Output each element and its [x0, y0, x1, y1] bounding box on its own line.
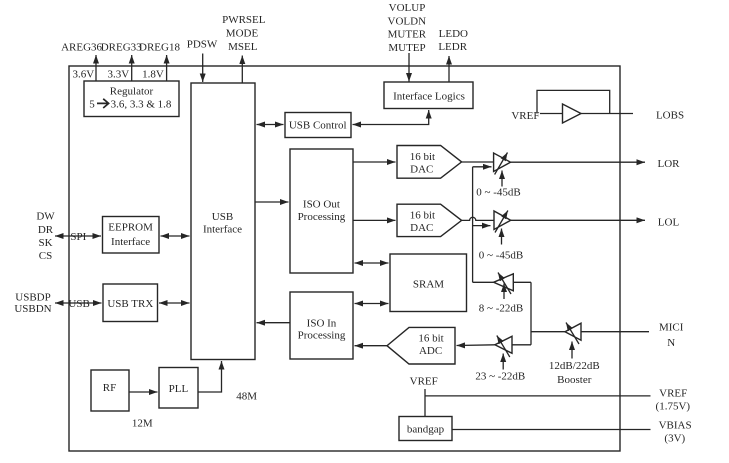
pin label VBIAS (3V) — [659, 419, 692, 444]
usb control block — [285, 113, 351, 138]
svg-text:USB Control: USB Control — [289, 120, 347, 132]
mic bus vertical — [530, 282, 532, 345]
vga amp 8dB (sidetone, left pointing) — [494, 273, 514, 300]
svg-text:48M: 48M — [236, 391, 257, 403]
svg-text:(1.75V): (1.75V) — [656, 401, 691, 413]
pin label VREF (1.75V) — [656, 388, 691, 413]
svg-text:5: 5 — [89, 99, 95, 111]
svg-text:16 bit: 16 bit — [410, 151, 435, 163]
svg-text:PLL: PLL — [169, 383, 189, 395]
usb trx block — [103, 284, 158, 322]
interface logics block — [384, 82, 473, 109]
pin labels LEDO LEDR — [438, 28, 468, 53]
svg-text:USB: USB — [212, 211, 233, 223]
chip outer boundary — [69, 66, 620, 451]
wire amp2 to LOL — [511, 219, 645, 221]
svg-text:MUTER: MUTER — [388, 29, 427, 41]
pin label MICI N — [659, 321, 684, 349]
svg-text:Interface Logics: Interface Logics — [393, 90, 465, 102]
svg-text:DAC: DAC — [410, 163, 433, 175]
svg-text:VBIAS: VBIAS — [659, 419, 692, 431]
svg-text:0 ~ -45dB: 0 ~ -45dB — [479, 250, 523, 262]
wire bus stub to amp1 — [473, 166, 492, 168]
wire buffer out LOBS — [581, 113, 633, 115]
svg-text:EEPROM: EEPROM — [108, 221, 153, 233]
wire USB double arrow — [55, 302, 102, 304]
vga amp1 (line out right) — [494, 153, 511, 187]
eeprom interface block — [103, 217, 160, 254]
svg-text:SRAM: SRAM — [413, 278, 444, 290]
svg-text:3.6V: 3.6V — [73, 69, 95, 81]
svg-text:3.6, 3.3 & 1.8: 3.6, 3.3 & 1.8 — [111, 99, 172, 111]
wire iso in to usb interface — [257, 322, 291, 324]
wire iso out to dac1 — [353, 161, 396, 163]
svg-text:Regulator: Regulator — [110, 86, 154, 98]
wire iso in to sram — [355, 303, 389, 305]
iso in processing block — [290, 292, 353, 359]
svg-text:CS: CS — [39, 250, 52, 262]
svg-text:DREG18: DREG18 — [139, 42, 180, 54]
wire amp8 out to bus — [473, 281, 494, 283]
svg-text:AREG36: AREG36 — [61, 42, 102, 54]
wire MSEL arrow — [241, 56, 243, 84]
svg-text:0 ~ -45dB: 0 ~ -45dB — [476, 187, 520, 199]
iso out processing block — [290, 149, 353, 273]
svg-text:Processing: Processing — [298, 211, 346, 223]
wire dac1 to amp1 — [462, 161, 494, 163]
pin labels PWRSEL MODE MSEL — [222, 14, 266, 53]
svg-text:12M: 12M — [132, 418, 153, 430]
wire AREG36 arrow — [95, 55, 97, 81]
svg-text:3.3V: 3.3V — [107, 69, 129, 81]
wire usb interface to iso out — [255, 201, 289, 203]
svg-text:bandgap: bandgap — [407, 424, 445, 436]
svg-text:LOR: LOR — [658, 158, 681, 170]
svg-text:DW: DW — [36, 211, 55, 223]
wire iso out to dac2 — [353, 219, 396, 221]
svg-text:VREF: VREF — [659, 388, 687, 400]
wire vref vertical to bandgap — [424, 389, 426, 417]
adc block (16 bit ADC) — [387, 327, 455, 364]
sidetone bus vertical — [472, 167, 474, 282]
svg-text:USB: USB — [68, 298, 89, 310]
svg-text:DREG33: DREG33 — [101, 42, 142, 54]
svg-text:Booster: Booster — [557, 374, 592, 386]
dac1 block (16 bit DAC) — [397, 146, 462, 179]
wire vref to buffer — [540, 113, 563, 115]
pin labels DW DR SK CS — [36, 211, 55, 263]
wire usbtrx to usb interface — [159, 302, 190, 304]
feedback loop — [537, 90, 610, 113]
svg-text:8 ~ -22dB: 8 ~ -22dB — [479, 303, 523, 315]
booster amp (mic input, left pointing) — [565, 323, 581, 359]
svg-text:12dB/22dB: 12dB/22dB — [549, 360, 600, 372]
svg-text:VREF: VREF — [511, 110, 539, 122]
vga amp 23dB (adc input, left pointing) — [495, 336, 512, 370]
pll block — [159, 368, 198, 409]
svg-text:USBDP: USBDP — [15, 291, 50, 303]
svg-text:Processing: Processing — [298, 330, 346, 342]
pin labels USBDP USBDN — [14, 291, 51, 315]
regulator line2: 5 -> 3.6, 3.3 & 1.8 — [89, 99, 172, 111]
wire vref output — [425, 395, 651, 397]
svg-text:23 ~ -22dB: 23 ~ -22dB — [475, 371, 525, 383]
wire eeprom to usb interface — [161, 235, 190, 237]
svg-text:MSEL: MSEL — [228, 41, 258, 53]
svg-text:1.8V: 1.8V — [142, 69, 164, 81]
pin labels VOLUP VOLDN MUTER MUTEP — [388, 2, 427, 54]
svg-text:MICI: MICI — [659, 321, 684, 333]
wire usb-control to interface-logics — [353, 110, 429, 125]
svg-text:SK: SK — [38, 237, 52, 249]
wire bus stub to amp2 — [473, 225, 491, 227]
label 12dB/22dB Booster — [549, 360, 600, 386]
svg-text:VREF: VREF — [410, 375, 438, 387]
wire pll to usb interface — [198, 361, 222, 392]
wire LEDO arrow — [448, 56, 450, 82]
wire amp1 to LOR — [511, 161, 646, 163]
wire vbias output — [452, 429, 651, 431]
vref buffer amp — [563, 104, 582, 123]
svg-text:(3V): (3V) — [664, 432, 685, 444]
svg-text:LOL: LOL — [658, 217, 680, 229]
usb interface block — [191, 83, 255, 360]
svg-text:LEDO: LEDO — [439, 28, 468, 40]
wire amp8 input — [513, 281, 531, 283]
svg-text:16 bit: 16 bit — [410, 210, 435, 222]
svg-text:DR: DR — [38, 224, 54, 236]
svg-text:ISO In: ISO In — [307, 317, 337, 329]
svg-text:MODE: MODE — [226, 28, 259, 40]
svg-text:LEDR: LEDR — [438, 41, 467, 53]
dac2 block (16 bit DAC) — [397, 204, 462, 236]
wire DREG18 arrow — [166, 55, 168, 81]
svg-text:DAC: DAC — [410, 222, 433, 234]
sram block — [390, 254, 467, 312]
svg-text:USBDN: USBDN — [14, 303, 51, 315]
wire adc to iso in — [355, 345, 388, 347]
wire PDSW arrow — [202, 54, 204, 83]
svg-text:VOLDN: VOLDN — [388, 15, 427, 27]
svg-text:PDSW: PDSW — [187, 38, 218, 50]
regulator block — [84, 81, 179, 117]
svg-text:Interface: Interface — [203, 224, 242, 236]
svg-text:MUTEP: MUTEP — [388, 42, 425, 54]
svg-text:VOLUP: VOLUP — [389, 2, 426, 14]
wire rf to pll — [129, 391, 158, 393]
rf block — [91, 370, 129, 411]
wire SPI double arrow — [55, 235, 101, 237]
wire DREG33 arrow — [131, 55, 133, 81]
wire usb-interface to usb-control — [257, 124, 284, 126]
wire iso out to sram — [355, 262, 389, 264]
wire MICIN input — [581, 331, 649, 333]
svg-text:RF: RF — [103, 382, 116, 394]
wire mic bus to amp23 — [512, 344, 531, 346]
bandgap block — [399, 417, 452, 441]
wire amp23 to adc — [457, 344, 495, 347]
svg-text:LOBS: LOBS — [656, 109, 684, 121]
svg-text:SPI: SPI — [70, 231, 86, 243]
svg-text:16 bit: 16 bit — [418, 333, 443, 345]
wire dac2 to amp2 (hop over bus) — [462, 217, 494, 220]
svg-text:ISO Out: ISO Out — [303, 199, 340, 211]
vga amp2 (line out left) — [494, 211, 511, 245]
svg-text:N: N — [667, 337, 675, 349]
svg-text:USB TRX: USB TRX — [107, 298, 153, 310]
svg-text:PWRSEL: PWRSEL — [222, 14, 266, 26]
wire VOLUP group arrow — [408, 53, 410, 82]
wire booster out to mic bus — [531, 331, 565, 333]
svg-text:Interface: Interface — [111, 236, 150, 248]
svg-text:ADC: ADC — [419, 345, 442, 357]
